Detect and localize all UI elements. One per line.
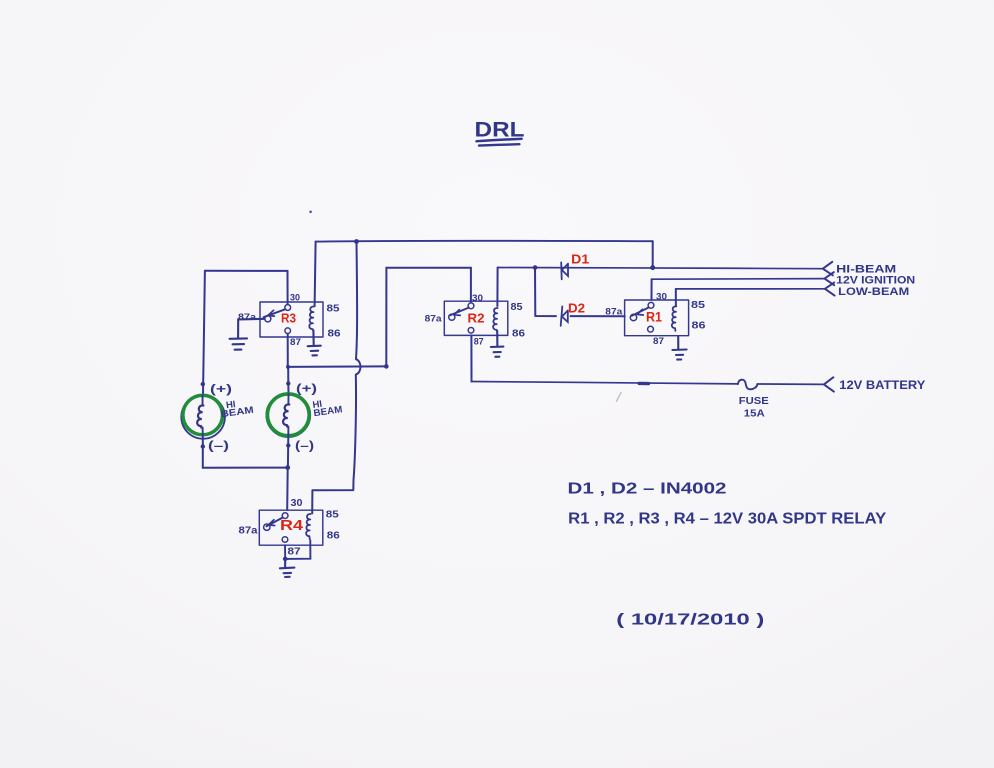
svg-text:R1: R1 xyxy=(646,310,662,325)
svg-text:(–): (–) xyxy=(295,438,314,452)
wire D2 to R1 87a xyxy=(571,315,625,317)
relay R3 xyxy=(260,302,323,337)
wire top bus xyxy=(316,240,653,243)
lamp L1 HI BEAM xyxy=(181,395,225,439)
svg-text:30: 30 xyxy=(656,292,667,303)
svg-text:87: 87 xyxy=(474,337,484,348)
wire R3 coil 85 riser xyxy=(315,242,316,307)
svg-text:87a: 87a xyxy=(605,307,623,318)
svg-text:86: 86 xyxy=(328,329,342,340)
svg-text:(+): (+) xyxy=(296,383,317,395)
wire R2 87 drop xyxy=(470,335,472,381)
wire 12V battery line right of fuse xyxy=(757,383,823,385)
svg-text:87: 87 xyxy=(653,336,664,347)
junction R3 87 and lamp2 plus xyxy=(286,365,290,369)
svg-text:R1 , R2 , R3 , R4 – 12V 30A S: R1 , R2 , R3 , R4 – 12V 30A SPDT RELAY xyxy=(568,511,886,528)
svg-text:85: 85 xyxy=(691,299,705,311)
wire R2 coil 85 riser xyxy=(496,268,498,306)
wire 12V battery line left of fuse xyxy=(472,382,738,384)
wire bus right drop to HI-BEAM node xyxy=(652,241,654,267)
svg-text:85: 85 xyxy=(326,510,340,521)
svg-text:87: 87 xyxy=(290,337,301,348)
wire lamp2 minus drop xyxy=(287,437,289,468)
lamp L2 HI BEAM xyxy=(266,393,310,437)
node lamp2 plus terminal xyxy=(286,381,290,385)
svg-text:87a: 87a xyxy=(238,312,257,323)
svg-text:R4: R4 xyxy=(280,518,303,534)
svg-text:FUSE: FUSE xyxy=(739,395,769,407)
wire D2 branch from HI-BEAM node xyxy=(535,268,556,317)
svg-text:R2: R2 xyxy=(468,310,485,325)
svg-text:(+): (+) xyxy=(210,384,232,396)
fuse F1 symbol xyxy=(738,380,757,390)
svg-text:D1 , D2 – IN4002: D1 , D2 – IN4002 xyxy=(568,481,727,498)
svg-text:(–): (–) xyxy=(208,438,229,452)
ground below R3 coil xyxy=(308,330,321,355)
wire minus bus to R4 30 xyxy=(286,468,289,510)
svg-text:D1: D1 xyxy=(571,253,589,267)
ground below R2 coil xyxy=(491,331,504,357)
svg-text:R3: R3 xyxy=(281,311,296,326)
relay R4 xyxy=(259,510,323,545)
junction net to R2 30 riser xyxy=(384,364,389,369)
node lamp2 minus terminal xyxy=(286,443,290,447)
svg-text:12V IGNITION: 12V IGNITION xyxy=(836,274,915,286)
junction hi-beam line and bus drop xyxy=(650,265,655,270)
wire lamp2 plus to circle xyxy=(287,381,289,394)
node lamp1 plus terminal xyxy=(201,382,205,386)
wire R3 87 drop xyxy=(287,334,289,367)
svg-text:87: 87 xyxy=(288,547,302,558)
wire lamp1 plus net xyxy=(205,270,288,272)
stray pencil mark xyxy=(617,393,622,402)
ground below R3 87a xyxy=(230,319,265,350)
diode D1 xyxy=(561,262,568,279)
wire R1 coil 85 to low-beam xyxy=(675,289,677,306)
stray ink dot xyxy=(309,211,312,214)
wire lamps minus bus xyxy=(203,467,288,469)
connector chevron 12V BATTERY xyxy=(824,377,834,391)
connector chevron HI-BEAM xyxy=(823,262,833,276)
svg-text:87a: 87a xyxy=(425,314,443,325)
ground below R1 coil xyxy=(672,336,686,360)
junction on top bus to R4 coil branch xyxy=(354,239,359,244)
svg-text:86: 86 xyxy=(327,531,341,542)
ground below R4 xyxy=(280,559,295,577)
svg-text:86: 86 xyxy=(512,329,526,340)
wire R1 30 to 12V ignition xyxy=(651,279,653,300)
relay R2 xyxy=(444,301,508,335)
svg-text:30: 30 xyxy=(291,498,303,509)
wire R4 coil 86 to ground node xyxy=(285,540,310,559)
junction hi-beam node to D2 branch xyxy=(533,265,538,270)
diode D2 xyxy=(561,306,568,325)
title DRL underline xyxy=(477,139,522,142)
connector chevron LOW-BEAM xyxy=(825,283,835,296)
svg-text:85: 85 xyxy=(511,302,523,313)
wire R4 87 drop xyxy=(285,540,310,559)
node lamp1 minus terminal xyxy=(201,444,205,448)
svg-text:15A: 15A xyxy=(744,407,765,419)
wire HI-BEAM line xyxy=(498,267,823,268)
svg-text:12V BATTERY: 12V BATTERY xyxy=(839,380,925,392)
svg-text:D2: D2 xyxy=(568,301,585,315)
svg-text:87a: 87a xyxy=(239,526,258,537)
svg-text:LOW-BEAM: LOW-BEAM xyxy=(838,286,909,298)
wire lamp2 plus drop xyxy=(287,367,289,381)
wire battery line ink smear xyxy=(639,382,648,386)
wire long vertical from bus to R4 coil (with hop) xyxy=(312,242,360,514)
svg-text:30: 30 xyxy=(290,293,300,304)
junction lamps minus bus xyxy=(285,465,290,470)
relay R1 xyxy=(625,300,689,336)
svg-text:( 10/17/2010 ): ( 10/17/2010 ) xyxy=(616,612,764,629)
svg-text:85: 85 xyxy=(327,304,341,315)
connector chevron 12V IGNITION xyxy=(825,272,835,285)
junction R4 87 ground node xyxy=(283,557,288,562)
svg-text:30: 30 xyxy=(472,293,483,304)
wire R3 87 to R2 30 net xyxy=(288,365,386,368)
svg-text:86: 86 xyxy=(692,320,706,332)
wire lamp1 minus to bus xyxy=(202,438,204,468)
svg-text:DRL: DRL xyxy=(475,119,525,142)
